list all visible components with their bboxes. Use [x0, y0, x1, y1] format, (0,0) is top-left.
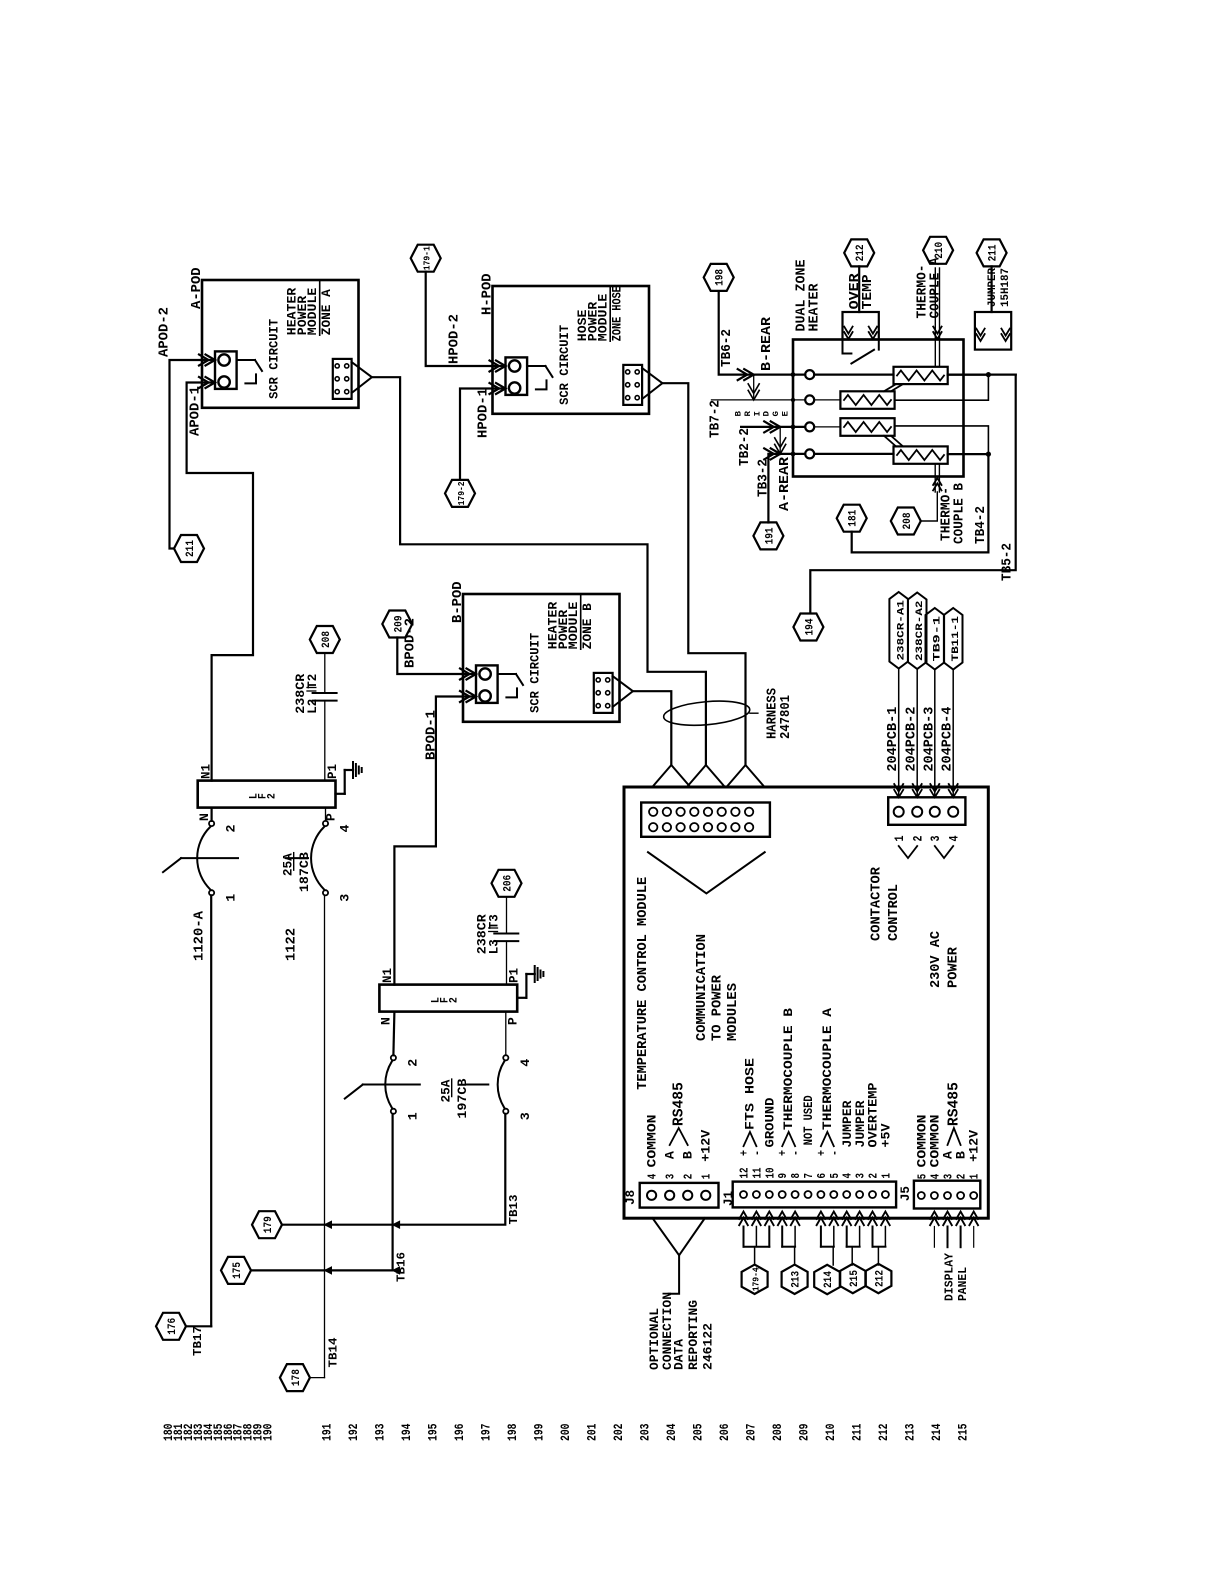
svg-text:G: G — [772, 411, 781, 417]
svg-text:REPORTING: REPORTING — [686, 1300, 701, 1370]
svg-text:201: 201 — [585, 1423, 600, 1441]
wire 208 to thermocouple B — [921, 492, 938, 521]
svg-text:NOT USED: NOT USED — [802, 1095, 816, 1145]
svg-text:HPOD-1: HPOD-1 — [477, 388, 492, 438]
ground at LF2 #2 — [517, 997, 526, 999]
svg-text:FTS HOSE: FTS HOSE — [742, 1058, 757, 1130]
node 213 — [782, 1265, 808, 1294]
wire 197CB-3 / TB13 — [282, 1114, 505, 1225]
node 181 — [837, 505, 867, 532]
svg-text:11: 11 — [750, 1168, 764, 1179]
thermocouple B pair — [934, 464, 936, 492]
svg-text:BPOD-2: BPOD-2 — [404, 618, 419, 668]
svg-text:HPOD-2: HPOD-2 — [448, 314, 463, 364]
svg-text:J8: J8 — [624, 1190, 638, 1205]
svg-text:+12V: +12V — [699, 1130, 714, 1162]
svg-text:MODULES: MODULES — [725, 983, 741, 1041]
svg-text:202: 202 — [611, 1423, 626, 1441]
svg-text:199: 199 — [532, 1423, 547, 1441]
svg-text:PANEL: PANEL — [957, 1267, 970, 1301]
svg-text:SCR CIRCUIT: SCR CIRCUIT — [558, 324, 572, 404]
element series links diagonal — [884, 384, 896, 391]
svg-text:J1: J1 — [722, 1191, 736, 1206]
svg-text:2: 2 — [448, 997, 460, 1003]
wire TB16 — [251, 1269, 393, 1271]
svg-text:1: 1 — [879, 1173, 893, 1179]
J5 display panel wires — [930, 1212, 939, 1220]
svg-text:I: I — [753, 411, 762, 417]
wire TB4-2 to 181 — [852, 454, 989, 552]
input arrows H-POD — [496, 361, 506, 372]
bridge row1-row2 — [753, 375, 755, 400]
svg-text:2: 2 — [867, 1173, 881, 1179]
svg-text:SCR CIRCUIT: SCR CIRCUIT — [268, 318, 282, 398]
node 212 bottom — [865, 1264, 891, 1293]
line filter LF2 #2 — [379, 985, 517, 1012]
contact 238CR L3-T3 — [494, 933, 518, 935]
node 208 left — [310, 626, 340, 653]
svg-text:208: 208 — [321, 631, 333, 648]
flag TB9-1 — [926, 608, 945, 670]
connector funnel B-POD — [613, 676, 633, 707]
svg-text:212: 212 — [855, 244, 867, 261]
module box A-POD — [202, 280, 359, 408]
svg-text:+: + — [776, 1150, 790, 1156]
row4 wire TB3-2 — [768, 454, 780, 523]
svg-text:192: 192 — [346, 1423, 361, 1441]
SCR circuit H-POD — [506, 357, 528, 395]
module box H-POD — [493, 286, 650, 414]
wire 197CB-1 down — [392, 1114, 394, 1271]
J8 RS485 brace — [670, 1128, 688, 1145]
heater element bottom right — [894, 446, 948, 463]
J5 RS485 brace — [948, 1128, 961, 1145]
svg-text:200: 200 — [558, 1423, 573, 1441]
svg-text:204PCB-3: 204PCB-3 — [922, 707, 937, 772]
svg-text:TB17: TB17 — [192, 1326, 205, 1356]
svg-text:MODULE: MODULE — [306, 288, 320, 336]
svg-text:J5: J5 — [899, 1186, 913, 1201]
right link row1-el2 — [948, 374, 989, 376]
svg-text:206: 206 — [503, 875, 515, 892]
node 179-4 — [742, 1265, 768, 1294]
underline A-POD — [319, 280, 321, 335]
svg-text:230V AC: 230V AC — [929, 931, 944, 988]
svg-text:ZONE A: ZONE A — [320, 289, 334, 336]
output connector A-POD — [333, 359, 352, 399]
wire 212 to overtemp — [858, 266, 860, 312]
svg-text:214: 214 — [823, 1271, 835, 1288]
svg-text:213: 213 — [903, 1423, 918, 1441]
svg-text:7: 7 — [802, 1173, 816, 1179]
node 191 — [753, 522, 783, 549]
temperature control module box — [624, 787, 988, 1218]
svg-text:TB3-2: TB3-2 — [757, 459, 772, 497]
svg-text:P: P — [506, 1017, 520, 1025]
svg-text:238CR-A1: 238CR-A1 — [895, 600, 907, 661]
svg-text:15H187: 15H187 — [1000, 268, 1012, 307]
svg-text:-: - — [789, 1150, 803, 1156]
svg-text:247801: 247801 — [779, 695, 794, 739]
J8 funnel to data reporting — [653, 1218, 705, 1255]
svg-text:APOD-2: APOD-2 — [158, 307, 173, 357]
svg-text:COMMON: COMMON — [645, 1115, 660, 1168]
svg-text:POWER: POWER — [947, 946, 962, 988]
svg-text:2: 2 — [682, 1174, 696, 1180]
bridge row3-row4 — [779, 427, 781, 454]
wire 1122 / TB14 — [324, 895, 326, 1377]
svg-text:+5V: +5V — [879, 1123, 894, 1147]
node 206 — [492, 870, 522, 897]
svg-text:181: 181 — [848, 509, 860, 526]
svg-text:9: 9 — [776, 1173, 790, 1179]
svg-text:213: 213 — [791, 1270, 803, 1287]
svg-text:246122: 246122 — [701, 1323, 716, 1370]
wire P1 to 208 — [324, 701, 326, 781]
svg-text:210: 210 — [934, 242, 946, 259]
svg-text:P: P — [325, 813, 339, 821]
svg-text:2: 2 — [955, 1174, 969, 1180]
svg-text:191: 191 — [320, 1423, 335, 1441]
svg-text:197CB: 197CB — [456, 1078, 470, 1119]
svg-text:179-1: 179-1 — [422, 246, 433, 270]
svg-text:3: 3 — [519, 1112, 533, 1120]
SCR circuit B-POD — [476, 665, 498, 703]
svg-text:D: D — [763, 411, 772, 417]
svg-text:178: 178 — [291, 1369, 303, 1386]
comm input funnels — [652, 765, 690, 787]
svg-text:204: 204 — [664, 1423, 679, 1441]
svg-text:2: 2 — [911, 836, 925, 842]
svg-text:L3: L3 — [488, 939, 502, 954]
svg-text:TEMP: TEMP — [860, 274, 876, 309]
comm connector 16-pin — [641, 803, 770, 837]
svg-text:+: + — [815, 1150, 829, 1156]
wire P to breaker — [325, 808, 327, 821]
svg-text:ZONE HOSE: ZONE HOSE — [611, 286, 625, 341]
svg-text:205: 205 — [691, 1423, 706, 1441]
node 208 right — [891, 508, 921, 535]
svg-text:COUPLE B: COUPLE B — [953, 483, 968, 544]
heater enclosure box — [793, 340, 964, 477]
connector J8 — [640, 1183, 719, 1208]
svg-text:THERMOCOUPLE B: THERMOCOUPLE B — [781, 1008, 796, 1130]
J1 brackets FTS HOSE / thermocouples — [744, 1132, 757, 1146]
SCR circuit A-POD — [215, 351, 237, 389]
svg-text:+: + — [738, 1150, 752, 1156]
connector 204PCB 4-pin — [888, 797, 965, 825]
wire HPOD-2 — [426, 272, 506, 366]
svg-text:203: 203 — [638, 1423, 653, 1441]
svg-text:179-2: 179-2 — [456, 481, 467, 505]
svg-text:215: 215 — [956, 1423, 971, 1441]
svg-text:8: 8 — [789, 1173, 803, 1179]
svg-text:238CR-A2: 238CR-A2 — [914, 601, 926, 662]
svg-text:193: 193 — [373, 1423, 388, 1441]
harness 247801 ellipse — [663, 698, 751, 728]
svg-text:1120-A: 1120-A — [193, 910, 208, 961]
svg-text:194: 194 — [399, 1423, 414, 1441]
wire P to breaker 197 — [505, 1012, 507, 1056]
svg-text:CONTROL: CONTROL — [887, 884, 902, 941]
svg-text:209: 209 — [797, 1423, 812, 1441]
svg-text:198: 198 — [715, 269, 727, 286]
row3 wire TB2-2 — [741, 426, 805, 428]
svg-text:25A: 25A — [282, 853, 296, 876]
svg-text:5: 5 — [828, 1173, 842, 1179]
flag 238CR-A1 — [889, 592, 908, 669]
svg-text:4: 4 — [947, 835, 961, 841]
svg-text:MODULE: MODULE — [567, 602, 581, 650]
node 176 — [156, 1313, 186, 1340]
node 194 — [793, 614, 823, 641]
svg-text:3: 3 — [339, 894, 353, 902]
heater element mid lower — [840, 418, 894, 436]
svg-text:TB13: TB13 — [508, 1194, 521, 1224]
node 198 — [704, 264, 734, 291]
svg-text:207: 207 — [744, 1424, 759, 1442]
svg-text:204PCB-2: 204PCB-2 — [905, 707, 920, 772]
svg-text:212: 212 — [876, 1423, 891, 1441]
wires 204PCB-1..4 — [898, 669, 900, 798]
svg-text:196: 196 — [452, 1423, 467, 1441]
svg-text:E: E — [782, 411, 791, 417]
svg-text:A: A — [663, 1151, 678, 1159]
svg-text:MODULE: MODULE — [597, 294, 611, 342]
J1 input arrows and wires — [739, 1212, 748, 1220]
connector J5 — [914, 1181, 980, 1209]
node 179-1 — [411, 245, 441, 272]
row1 wire TB6-2 — [719, 291, 754, 374]
svg-text:SCR CIRCUIT: SCR CIRCUIT — [529, 632, 543, 712]
wire TB14 to 178 — [310, 1377, 325, 1379]
svg-text:B: B — [681, 1151, 696, 1159]
svg-text:TEMPERATURE CONTROL MODULE: TEMPERATURE CONTROL MODULE — [635, 877, 651, 1090]
svg-text:10: 10 — [763, 1168, 777, 1179]
svg-text:TB4-2: TB4-2 — [974, 506, 989, 544]
svg-text:B: B — [735, 411, 744, 417]
svg-text:N: N — [380, 1017, 394, 1025]
svg-text:176: 176 — [167, 1318, 179, 1335]
wire BPOD-1 — [394, 697, 476, 985]
node 210 — [923, 237, 953, 264]
wire APOD-2 — [170, 360, 216, 549]
node 211 left — [174, 535, 204, 562]
svg-text:-: - — [828, 1150, 842, 1156]
node 179-2 — [445, 480, 475, 507]
svg-text:1: 1 — [406, 1112, 420, 1120]
contactor control brace — [899, 846, 918, 858]
svg-text:JUMPER: JUMPER — [987, 268, 999, 307]
svg-text:175: 175 — [232, 1262, 244, 1279]
svg-text:1: 1 — [700, 1174, 714, 1180]
svg-text:GROUND: GROUND — [763, 1097, 778, 1147]
wire N to breaker 197 — [393, 1012, 394, 1056]
svg-text:210: 210 — [823, 1423, 838, 1441]
underline H-POD — [609, 286, 611, 341]
svg-text:N1: N1 — [200, 764, 214, 779]
svg-text:TB16: TB16 — [396, 1252, 409, 1282]
svg-text:-: - — [750, 1150, 764, 1156]
svg-text:ZONE B: ZONE B — [581, 603, 595, 650]
svg-text:B-REAR: B-REAR — [760, 316, 775, 371]
svg-text:1122: 1122 — [285, 928, 300, 961]
svg-text:CONTACTOR: CONTACTOR — [870, 866, 885, 941]
row2 wire TB7-2 — [712, 399, 806, 401]
svg-text:N1: N1 — [381, 968, 395, 983]
big V pointer — [648, 852, 765, 893]
svg-text:208: 208 — [770, 1423, 785, 1441]
svg-text:COMMUNICATION: COMMUNICATION — [694, 934, 710, 1041]
circuit breaker 187CB — [209, 821, 214, 826]
node 212 top — [844, 239, 874, 266]
jumper box 15H187 — [975, 312, 1011, 350]
wire HPOD-1 — [460, 389, 506, 480]
svg-text:206: 206 — [717, 1423, 732, 1441]
svg-text:215: 215 — [849, 1270, 861, 1287]
node 175 — [221, 1257, 251, 1284]
svg-text:R: R — [744, 411, 753, 417]
node 178 — [280, 1364, 310, 1391]
svg-text:2: 2 — [225, 825, 239, 833]
connector J1 — [733, 1182, 896, 1208]
svg-text:211: 211 — [185, 540, 197, 557]
svg-text:1: 1 — [225, 894, 239, 902]
svg-text:TB11-1: TB11-1 — [950, 616, 962, 662]
flag TB11-1 — [944, 608, 963, 670]
svg-text:211: 211 — [850, 1423, 865, 1441]
right link row4-el3 — [948, 453, 989, 455]
wire P1 to 206 — [506, 941, 508, 985]
line filter LF2 #1 — [198, 781, 336, 808]
connector funnel A-POD — [352, 362, 372, 393]
svg-text:TB7-2: TB7-2 — [709, 400, 724, 438]
input arrows B-POD — [467, 669, 477, 680]
wire 1120-A — [210, 895, 212, 1326]
svg-text:BPOD-1: BPOD-1 — [425, 710, 440, 760]
underline B-POD — [580, 594, 582, 649]
svg-text:187CB: 187CB — [298, 852, 312, 893]
svg-text:A-REAR: A-REAR — [778, 456, 793, 511]
svg-text:RS485: RS485 — [671, 1082, 688, 1126]
svg-text:204PCB-4: 204PCB-4 — [941, 707, 956, 772]
contact 238CR L2-T2 — [313, 692, 337, 694]
svg-text:A-POD: A-POD — [190, 267, 205, 309]
svg-text:DATA: DATA — [672, 1339, 687, 1370]
wire B-POD comm — [633, 691, 671, 765]
svg-text:P1: P1 — [326, 764, 340, 779]
svg-text:COUPLE A: COUPLE A — [929, 257, 944, 319]
svg-text:TO POWER: TO POWER — [710, 974, 726, 1041]
node 214 — [814, 1265, 840, 1294]
svg-text:214: 214 — [929, 1423, 944, 1441]
terminal circles — [805, 370, 814, 379]
svg-text:TB2-2: TB2-2 — [738, 428, 753, 466]
svg-text:195: 195 — [426, 1423, 441, 1441]
svg-text:3: 3 — [854, 1173, 868, 1179]
connector funnel H-POD — [642, 368, 662, 399]
svg-text:190: 190 — [261, 1423, 276, 1441]
svg-text:THERMOCOUPLE A: THERMOCOUPLE A — [820, 1008, 835, 1130]
svg-text:191: 191 — [764, 527, 776, 544]
svg-text:198: 198 — [505, 1423, 520, 1441]
node 179 mid — [252, 1211, 282, 1238]
svg-text:194: 194 — [804, 618, 816, 635]
svg-text:L2: L2 — [306, 699, 320, 714]
svg-text:H-POD: H-POD — [481, 273, 496, 315]
svg-text:P1: P1 — [508, 968, 522, 983]
svg-text:T3: T3 — [488, 914, 502, 929]
svg-text:N: N — [198, 813, 212, 821]
overtemp switch box — [843, 312, 879, 340]
svg-text:208: 208 — [902, 512, 914, 529]
module box B-POD — [463, 594, 620, 722]
output connector H-POD — [623, 365, 642, 405]
svg-text:2: 2 — [406, 1059, 420, 1067]
wire APOD-1 — [187, 383, 253, 781]
svg-text:HEATER: HEATER — [807, 283, 823, 332]
element filaments — [897, 371, 944, 381]
svg-text:B-POD: B-POD — [451, 581, 466, 623]
svg-text:179: 179 — [263, 1216, 275, 1233]
wire A-POD comm — [372, 377, 706, 765]
svg-text:4: 4 — [841, 1173, 855, 1179]
svg-text:211: 211 — [988, 244, 1000, 261]
svg-text:1: 1 — [968, 1174, 982, 1180]
svg-text:5: 5 — [915, 1174, 929, 1180]
junction wedges — [393, 1221, 400, 1228]
flag 238CR-A2 — [908, 593, 927, 670]
svg-text:3: 3 — [929, 836, 943, 842]
thermocouple A pair — [934, 268, 936, 340]
svg-text:212: 212 — [874, 1270, 886, 1287]
svg-text:2: 2 — [267, 793, 279, 799]
wire TB5-2 — [948, 374, 1016, 376]
svg-text:RS485: RS485 — [946, 1082, 963, 1126]
wire BPOD-2 — [397, 638, 476, 675]
circuit breaker 197CB — [391, 1055, 396, 1060]
svg-text:DISPLAY: DISPLAY — [944, 1253, 957, 1301]
svg-text:TB6-2: TB6-2 — [720, 329, 735, 367]
svg-text:4: 4 — [339, 824, 353, 833]
svg-text:4: 4 — [646, 1174, 660, 1180]
svg-text:T2: T2 — [306, 674, 320, 689]
svg-text:TB5-2: TB5-2 — [1001, 543, 1016, 581]
junction dots at box edge — [791, 372, 796, 377]
output connector B-POD — [594, 673, 613, 713]
svg-text:4: 4 — [928, 1174, 942, 1180]
wire H-POD comm — [662, 383, 745, 765]
svg-text:6: 6 — [815, 1173, 829, 1179]
input arrows A-POD — [206, 355, 216, 366]
svg-text:3: 3 — [664, 1174, 678, 1180]
heater element mid upper — [840, 391, 894, 409]
wire TB17 — [186, 1325, 211, 1327]
svg-text:204PCB-1: 204PCB-1 — [886, 707, 901, 772]
heater element top right — [894, 367, 948, 384]
svg-text:TB9-1: TB9-1 — [931, 616, 943, 662]
svg-text:25A: 25A — [440, 1079, 454, 1102]
svg-text:12: 12 — [738, 1168, 752, 1179]
svg-text:TB14: TB14 — [328, 1337, 341, 1367]
svg-text:3: 3 — [942, 1174, 956, 1180]
ground at LF2 #1 — [336, 793, 345, 795]
svg-text:APOD-1: APOD-1 — [189, 386, 204, 436]
svg-text:179-4: 179-4 — [751, 1267, 762, 1291]
wire N to breaker — [211, 808, 213, 821]
node 209 — [382, 611, 412, 638]
node 211 top right — [977, 239, 1007, 266]
